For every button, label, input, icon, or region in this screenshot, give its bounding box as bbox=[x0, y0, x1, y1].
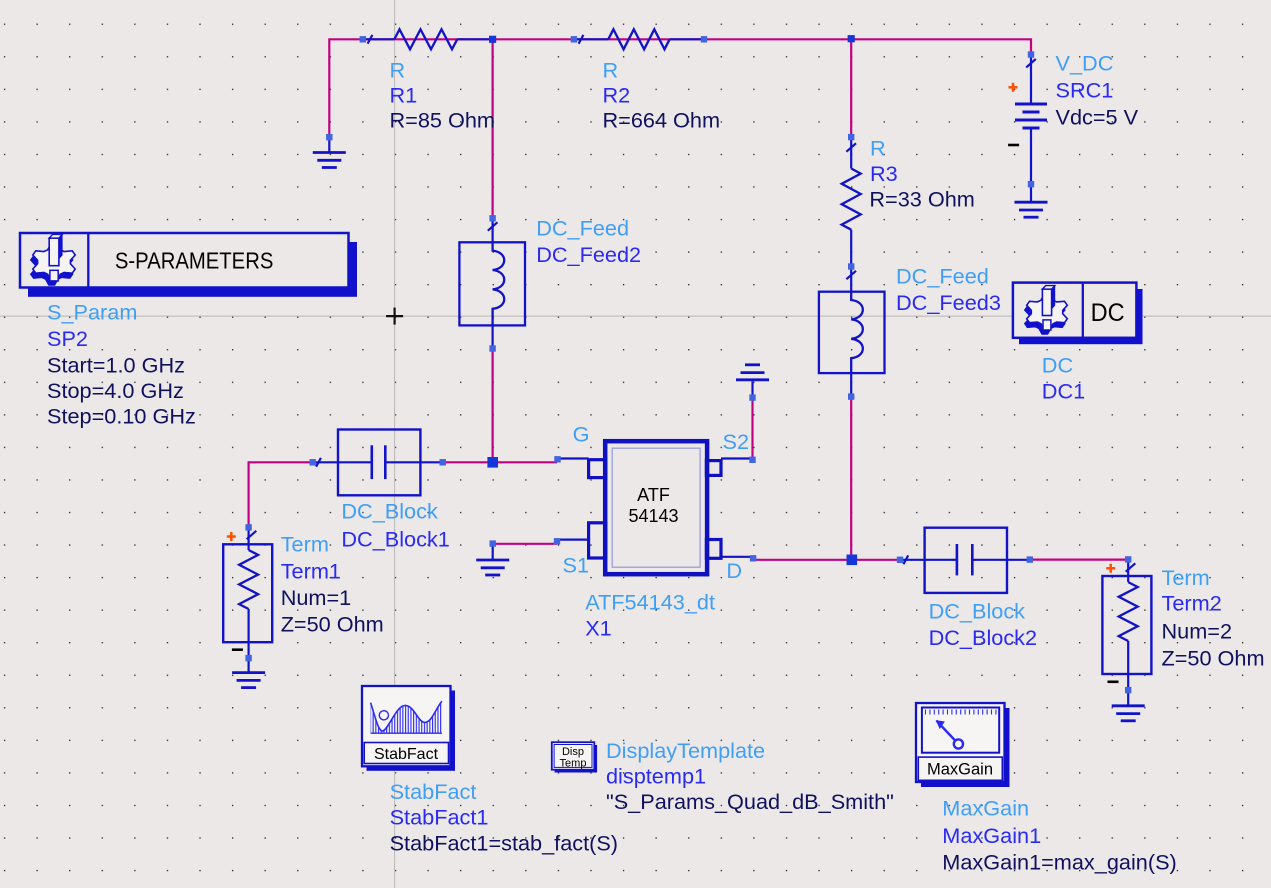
svg-text:G: G bbox=[573, 422, 590, 447]
svg-text:SRC1: SRC1 bbox=[1056, 78, 1114, 103]
svg-text:D: D bbox=[726, 558, 742, 583]
svg-text:V_DC: V_DC bbox=[1056, 51, 1114, 76]
svg-text:DC_Block2: DC_Block2 bbox=[929, 625, 1037, 650]
svg-text:DC: DC bbox=[1042, 353, 1073, 378]
svg-text:StabFact1=stab_fact(S): StabFact1=stab_fact(S) bbox=[390, 831, 618, 856]
svg-text:DC_Feed2: DC_Feed2 bbox=[536, 242, 641, 267]
svg-text:MaxGain: MaxGain bbox=[942, 796, 1029, 821]
svg-text:DC_Block1: DC_Block1 bbox=[341, 526, 449, 551]
svg-text:Term2: Term2 bbox=[1162, 591, 1222, 616]
svg-text:StabFact: StabFact bbox=[374, 746, 439, 763]
svg-text:Start=1.0 GHz: Start=1.0 GHz bbox=[47, 352, 185, 377]
svg-text:X1: X1 bbox=[585, 616, 612, 641]
svg-text:disptemp1: disptemp1 bbox=[606, 763, 706, 788]
svg-text:S_Param: S_Param bbox=[47, 299, 137, 324]
svg-text:Term: Term bbox=[1162, 565, 1210, 590]
svg-text:Temp: Temp bbox=[560, 758, 587, 770]
svg-text:DC_Block: DC_Block bbox=[341, 499, 438, 524]
svg-text:MaxGain: MaxGain bbox=[927, 761, 993, 779]
svg-text:DC1: DC1 bbox=[1042, 379, 1085, 404]
svg-text:MaxGain1: MaxGain1 bbox=[942, 823, 1041, 848]
svg-text:Num=1: Num=1 bbox=[281, 585, 352, 610]
svg-text:DC: DC bbox=[1091, 299, 1125, 327]
svg-text:Z=50 Ohm: Z=50 Ohm bbox=[1162, 645, 1265, 670]
svg-text:R=664 Ohm: R=664 Ohm bbox=[603, 108, 721, 133]
svg-text:R: R bbox=[390, 57, 406, 82]
svg-text:MaxGain1=max_gain(S): MaxGain1=max_gain(S) bbox=[942, 850, 1176, 875]
svg-text:DC_Block: DC_Block bbox=[929, 598, 1026, 623]
svg-text:R=33 Ohm: R=33 Ohm bbox=[869, 187, 974, 212]
svg-text:"S_Params_Quad_dB_Smith": "S_Params_Quad_dB_Smith" bbox=[606, 789, 894, 814]
svg-text:R=85 Ohm: R=85 Ohm bbox=[390, 108, 495, 133]
svg-text:Z=50 Ohm: Z=50 Ohm bbox=[281, 611, 384, 636]
svg-text:R: R bbox=[603, 57, 619, 82]
svg-text:R3: R3 bbox=[870, 161, 898, 186]
svg-text:S1: S1 bbox=[563, 552, 590, 577]
svg-text:Term1: Term1 bbox=[281, 559, 341, 584]
svg-text:ATF54143_dt: ATF54143_dt bbox=[585, 589, 715, 614]
svg-text:StabFact: StabFact bbox=[390, 779, 477, 804]
svg-text:Num=2: Num=2 bbox=[1162, 618, 1233, 643]
svg-text:S-PARAMETERS: S-PARAMETERS bbox=[115, 247, 274, 273]
svg-text:Disp: Disp bbox=[562, 746, 584, 758]
svg-text:DC_Feed: DC_Feed bbox=[896, 264, 989, 289]
svg-text:S2: S2 bbox=[723, 429, 750, 454]
svg-text:DC_Feed3: DC_Feed3 bbox=[896, 290, 1001, 315]
svg-text:R1: R1 bbox=[390, 83, 418, 108]
svg-text:DC_Feed: DC_Feed bbox=[536, 216, 629, 241]
svg-text:SP2: SP2 bbox=[47, 326, 88, 351]
svg-text:ATF: ATF bbox=[637, 485, 670, 505]
svg-text:R: R bbox=[870, 136, 886, 161]
svg-text:StabFact1: StabFact1 bbox=[390, 804, 489, 829]
svg-text:54143: 54143 bbox=[628, 506, 678, 526]
svg-text:Stop=4.0 GHz: Stop=4.0 GHz bbox=[47, 378, 184, 403]
svg-text:DisplayTemplate: DisplayTemplate bbox=[606, 738, 765, 763]
svg-text:R2: R2 bbox=[603, 83, 631, 108]
svg-text:Step=0.10 GHz: Step=0.10 GHz bbox=[47, 404, 196, 429]
svg-text:Term: Term bbox=[281, 532, 329, 557]
svg-text:Vdc=5 V: Vdc=5 V bbox=[1056, 104, 1139, 129]
